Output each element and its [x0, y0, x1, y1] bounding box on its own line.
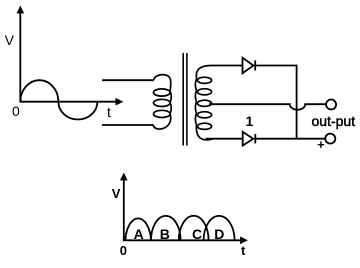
output hump C [179, 216, 209, 241]
label hump D [214, 226, 224, 242]
label 1 (diode) [246, 113, 254, 129]
transformer core [183, 53, 187, 146]
diode 1 [243, 132, 256, 146]
output terminal + (bottom) [325, 134, 335, 144]
output t axis [123, 237, 248, 245]
input sine wave [20, 80, 97, 119]
output hump D [204, 216, 235, 240]
wire diode 1 to + terminal [255, 138, 325, 140]
label t (input) [107, 104, 111, 120]
output hump B [151, 216, 181, 240]
label 0 (input) [12, 103, 20, 119]
transformer secondary winding [195, 66, 212, 140]
wire secondary bottom to diode 1 [206, 138, 243, 140]
label hump B [160, 226, 170, 242]
label V (input) [5, 32, 14, 48]
label + [317, 138, 324, 152]
output terminal (top) [326, 100, 336, 110]
output hump A [125, 218, 151, 240]
wire primary bottom lead [102, 124, 154, 126]
input t axis [20, 98, 124, 106]
wire primary top lead [102, 79, 154, 81]
label hump C [192, 226, 202, 242]
wire center tap with hop [209, 104, 326, 110]
wire D1 cathode to corner [255, 66, 296, 139]
label V (output) [112, 186, 121, 201]
label hump A [134, 226, 144, 242]
diode D1 [243, 58, 256, 73]
wire secondary top to diode D1 [209, 65, 243, 67]
output V axis [120, 173, 128, 242]
label t (output) [241, 243, 245, 258]
input V axis [17, 6, 25, 103]
label out-put [312, 113, 356, 129]
label 0 (output) [120, 243, 127, 258]
transformer primary winding [153, 75, 171, 129]
